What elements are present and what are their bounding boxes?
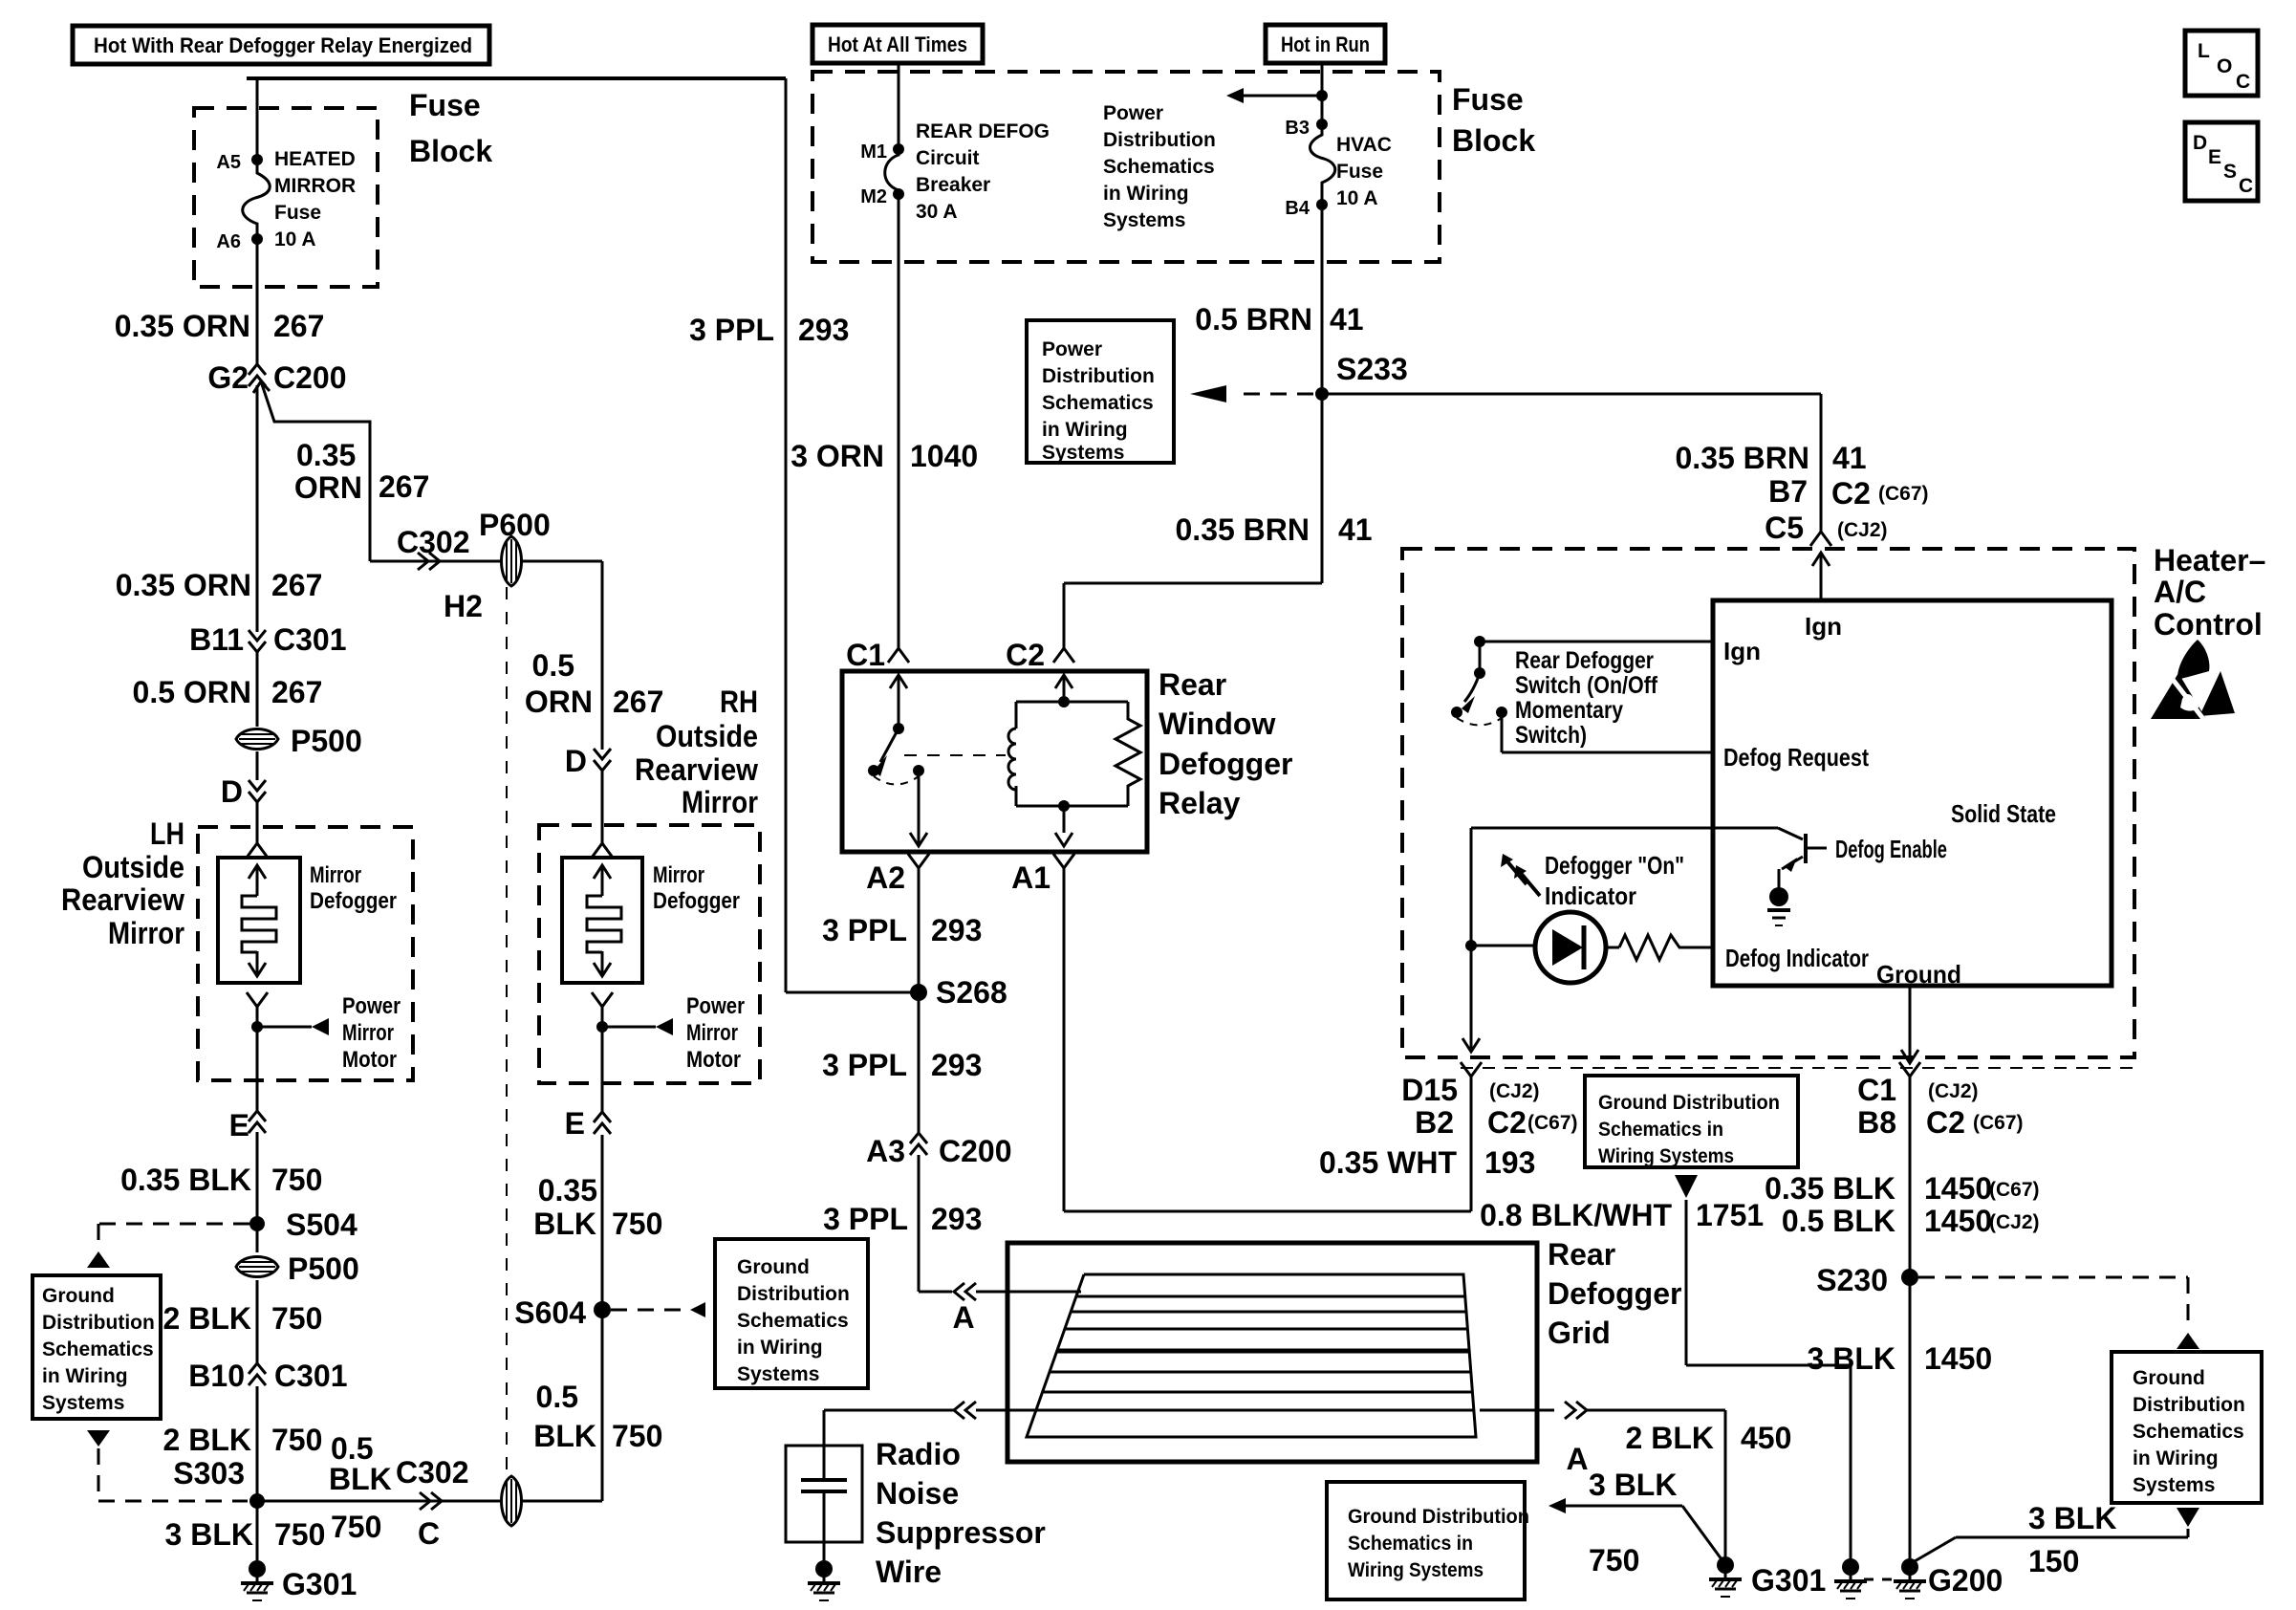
svg-text:0.5: 0.5 [331, 1431, 373, 1466]
svg-text:Rear Defogger: Rear Defogger [1515, 647, 1654, 674]
svg-text:P500: P500 [288, 1251, 359, 1286]
svg-text:C2: C2 [1006, 638, 1045, 672]
svg-text:C200: C200 [939, 1134, 1012, 1168]
grommet P600 (second, on ground path) [502, 1476, 522, 1526]
wire 2 BLK 750 from P500 to C301 [256, 1280, 259, 1363]
wire 0.5 BLK 750 from S303 through C302 to RH mirror chain [257, 1500, 501, 1503]
svg-text:A6: A6 [216, 231, 241, 252]
splice S268 [910, 984, 927, 1001]
svg-text:C2: C2 [1926, 1105, 1965, 1140]
svg-text:Schematics: Schematics [1103, 156, 1215, 178]
svg-text:Power: Power [1103, 102, 1163, 124]
svg-text:293: 293 [931, 913, 982, 947]
svg-text:3 PPL: 3 PPL [822, 913, 907, 947]
svg-text:P600: P600 [479, 508, 551, 542]
svg-text:0.8 BLK/WHT: 0.8 BLK/WHT [1480, 1198, 1672, 1232]
relay switch lever [880, 729, 899, 762]
svg-text:Distribution: Distribution [42, 1312, 155, 1334]
svg-text:Motor: Motor [686, 1047, 741, 1073]
svg-text:3 PPL: 3 PPL [822, 1048, 907, 1082]
grommet P600 (door pass-through) [502, 536, 522, 586]
svg-text:A3: A3 [866, 1134, 905, 1168]
splice S233 [1315, 387, 1329, 401]
svg-text:Hot With Rear Defogger Relay E: Hot With Rear Defogger Relay Energized [94, 33, 472, 57]
svg-text:B2: B2 [1415, 1105, 1454, 1140]
connector C200 pin A3 (chevrons) [910, 1133, 927, 1143]
connector C200 pin G2 (in-line chevrons) [249, 364, 266, 375]
svg-text:2 BLK: 2 BLK [163, 1423, 251, 1457]
svg-text:Block: Block [409, 134, 492, 168]
svg-text:B4: B4 [1285, 198, 1310, 219]
wire into RH mirror [601, 771, 604, 843]
svg-text:3 BLK: 3 BLK [1808, 1341, 1895, 1376]
svg-text:C301: C301 [274, 1359, 348, 1393]
svg-text:C302: C302 [397, 525, 470, 559]
relay coil/resistor top node from C2 [1063, 675, 1066, 704]
svg-text:C2: C2 [1831, 476, 1871, 511]
svg-text:Window: Window [1159, 707, 1275, 741]
wire: feed drop into HEATED MIRROR fuse A5 [256, 78, 259, 160]
svg-text:C302: C302 [396, 1455, 469, 1490]
svg-text:G200: G200 [1928, 1563, 2003, 1598]
svg-text:750: 750 [271, 1163, 322, 1197]
defog enable transistor Q (inside module) [1778, 828, 1803, 839]
wire 0.5 BLK 750 from S604 to C302 pass-through [601, 1310, 604, 1501]
svg-text:in Wiring: in Wiring [737, 1337, 823, 1359]
DESC reference box [2185, 122, 2258, 201]
svg-text:Rearview: Rearview [61, 882, 184, 917]
svg-text:750: 750 [331, 1510, 381, 1544]
wire 0.35 ORN 267 below C200 (to C301) [256, 385, 259, 632]
reference box: Ground Distribution Schematics in Wiring Systems (left) [32, 1275, 161, 1419]
grid ground connector (chevrons) to radio noise suppressor [954, 1402, 964, 1419]
svg-text:0.35 BLK: 0.35 BLK [1765, 1171, 1895, 1206]
svg-text:Schematics: Schematics [737, 1310, 849, 1332]
svg-text:A2: A2 [866, 860, 905, 895]
svg-text:(CJ2): (CJ2) [1837, 519, 1888, 541]
internal ground for defog enable [1769, 887, 1788, 906]
svg-text:0.35 ORN: 0.35 ORN [115, 309, 250, 343]
grommet P500 (second, body pass-through) [256, 1224, 259, 1252]
reference box: Power Distribution Schematics in Wiring Systems [1027, 320, 1174, 463]
svg-text:C200: C200 [273, 360, 347, 395]
svg-text:Indicator: Indicator [1545, 881, 1636, 910]
svg-text:Defogger: Defogger [653, 888, 740, 914]
connector pin D (RH mirror, chevrons) [594, 749, 611, 759]
svg-text:B7: B7 [1768, 474, 1808, 509]
svg-text:0.5 ORN: 0.5 ORN [133, 675, 251, 709]
svg-text:S303: S303 [173, 1456, 245, 1490]
svg-text:B8: B8 [1857, 1105, 1896, 1140]
fuse block 1 (dashed outline) [194, 108, 378, 287]
svg-text:0.35: 0.35 [296, 438, 356, 472]
LED light rays [1506, 860, 1527, 884]
svg-text:HEATED: HEATED [274, 148, 356, 170]
wire 3 BLK 750 reference from ground distribution to G301 [1549, 1498, 1566, 1513]
svg-text:0.35 BRN: 0.35 BRN [1676, 441, 1810, 475]
splice S230 [1901, 1269, 1918, 1286]
svg-text:Defogger: Defogger [1548, 1276, 1681, 1311]
svg-text:0.5: 0.5 [536, 1380, 578, 1414]
LED branch junction [1465, 940, 1477, 951]
svg-text:3 PPL: 3 PPL [689, 313, 774, 347]
Heater-A/C Control (dashed outline) [1402, 549, 2134, 1057]
svg-text:Schematics: Schematics [1042, 392, 1154, 414]
wire 0.8 BLK/WHT 1751 from ground distribution to G200 [1675, 1175, 1698, 1198]
svg-text:Block: Block [1452, 123, 1535, 158]
connector pin D (LH mirror, chevrons) [249, 780, 266, 791]
wire from Hot in Run to HVAC fuse B3 [1321, 63, 1324, 124]
svg-text:BLK: BLK [533, 1419, 596, 1453]
svg-text:D: D [2193, 132, 2207, 154]
svg-text:Schematics in: Schematics in [1348, 1533, 1473, 1555]
svg-text:Defog Indicator: Defog Indicator [1725, 944, 1869, 972]
grid connector pin A (chevrons) [954, 1283, 964, 1300]
fuse block 2 (dashed outline) [812, 72, 1440, 262]
relay connector forks C1 and C2 [888, 648, 909, 663]
dashed link between ground symbols [1864, 1578, 1896, 1581]
svg-text:D: D [221, 774, 243, 809]
power feed label box: Hot At All Times [812, 25, 983, 63]
svg-text:30 A: 30 A [916, 201, 958, 223]
wire 3 PPL 293 from S268 to C200 [918, 992, 921, 1134]
LH Outside Rearview Mirror (dashed outline) [198, 827, 413, 1080]
svg-text:Hot At All Times: Hot At All Times [828, 33, 967, 56]
connector fork CJ2 C1 / C67 C2 pin B8 [1899, 1062, 1920, 1077]
wire 0.5 BRN 41 from B4 to S233 [1321, 205, 1324, 394]
svg-text:Ground: Ground [2133, 1367, 2205, 1389]
splice S504 [249, 1216, 265, 1231]
connector CJ2 pin C5 / C67 pin C2 pin B7 fork at heater control [1810, 532, 1831, 546]
svg-text:Distribution: Distribution [1103, 129, 1216, 151]
svg-text:C5: C5 [1765, 511, 1804, 545]
svg-text:Schematics: Schematics [42, 1338, 154, 1360]
grommet P500 (LH door pass-through) [236, 729, 278, 750]
reference box: Ground Distribution Schematics in Wiring Systems (RH) [715, 1239, 868, 1388]
svg-text:BLK: BLK [329, 1462, 392, 1496]
connector fork CJ2 D15 / C67 C2 pin B2 [1461, 1062, 1482, 1077]
svg-text:in Wiring: in Wiring [1042, 419, 1128, 441]
svg-text:MIRROR: MIRROR [274, 175, 356, 197]
svg-text:Ground: Ground [1876, 960, 1961, 989]
svg-text:2 BLK: 2 BLK [1626, 1421, 1714, 1455]
svg-text:Fuse: Fuse [409, 88, 481, 122]
svg-text:RH: RH [720, 685, 758, 719]
svg-text:0.35 BLK: 0.35 BLK [120, 1163, 251, 1197]
svg-text:M1: M1 [860, 141, 887, 163]
svg-text:P500: P500 [291, 724, 362, 758]
svg-text:S504: S504 [286, 1207, 357, 1242]
ground for radio noise suppressor [815, 1560, 833, 1577]
svg-text:0.35: 0.35 [538, 1173, 597, 1207]
ground G301 (LH chain) [249, 1560, 266, 1577]
svg-text:HVAC: HVAC [1336, 134, 1392, 156]
svg-text:A/C: A/C [2154, 575, 2206, 609]
svg-text:Grid: Grid [1548, 1316, 1611, 1350]
reference box: Ground Distribution Schematics in Wiring Systems (top right) [1585, 1076, 1798, 1167]
svg-text:1450: 1450 [1924, 1341, 1992, 1376]
pin M1 of circuit breaker [893, 143, 904, 155]
dashed reference wire from S604 to ground distribution box [611, 1309, 688, 1312]
pin A5 of fuse block [251, 154, 263, 165]
relay coil [1015, 702, 1018, 729]
svg-text:Mirror: Mirror [686, 1020, 738, 1046]
svg-text:41: 41 [1330, 302, 1364, 337]
svg-text:Suppressor: Suppressor [876, 1515, 1046, 1550]
wire 3 BLK 750 from S303 to ground G301 [256, 1501, 259, 1560]
wire 0.35 BRN 41 from S233 to relay C2 [1321, 394, 1324, 583]
svg-text:Mirror: Mirror [653, 862, 704, 888]
pin M2 of circuit breaker [893, 188, 904, 200]
svg-text:S: S [2223, 161, 2237, 183]
svg-text:Breaker: Breaker [916, 174, 990, 196]
svg-text:Mirror: Mirror [342, 1020, 394, 1046]
wire from defog enable transistor to LED branch and D15 [1471, 827, 1778, 830]
svg-text:Radio: Radio [876, 1437, 961, 1471]
svg-text:0.35 ORN: 0.35 ORN [116, 568, 251, 602]
connector fork at LH mirror defogger input [247, 843, 268, 858]
junction to LH power mirror motor [251, 1021, 263, 1033]
svg-text:Noise: Noise [876, 1476, 959, 1511]
rear defogger switch, top contact to Ign pin [1474, 636, 1485, 647]
svg-text:S233: S233 [1336, 352, 1408, 386]
svg-text:H2: H2 [444, 589, 483, 623]
grid output connector pin A (chevrons, right) with 2 BLK 450 to G301 [1480, 1409, 1554, 1412]
svg-text:C: C [418, 1516, 440, 1551]
radio noise suppressor wire (capacitor in box) [786, 1446, 862, 1542]
power feed label box: Hot With Rear Defogger Relay Energized [73, 26, 489, 64]
svg-text:Power: Power [686, 993, 745, 1019]
svg-text:Defog Enable: Defog Enable [1835, 835, 1947, 863]
svg-text:C: C [2236, 71, 2250, 93]
svg-text:L: L [2198, 40, 2210, 62]
svg-text:3 BLK: 3 BLK [165, 1517, 253, 1552]
svg-text:Rear: Rear [1548, 1237, 1615, 1272]
svg-text:293: 293 [931, 1202, 982, 1236]
wire 3 BLK 150 from ground distribution box to G200 [2177, 1508, 2199, 1527]
svg-text:A1: A1 [1011, 860, 1051, 895]
wire 3 BLK 1450 from module ground to G200 [1909, 1077, 1912, 1558]
RH Outside Rearview Mirror (dashed outline) [539, 825, 760, 1083]
svg-text:C: C [2239, 175, 2253, 197]
svg-text:41: 41 [1832, 441, 1867, 475]
svg-text:B3: B3 [1285, 118, 1310, 139]
svg-text:Ign: Ign [1805, 612, 1842, 641]
power feed label box: Hot in Run [1266, 25, 1385, 63]
wire 0.35 WHT 193 from D15 to relay A1 [1470, 1077, 1473, 1211]
LH mirror defogger element (heater grid in box) [218, 858, 300, 983]
connector C301 pin B11 (in-line chevrons) [249, 630, 266, 641]
defogger grid element (trapezoid with grid lines) [1027, 1274, 1476, 1437]
grid output row to ground connectors [976, 1409, 1474, 1412]
svg-text:C301: C301 [273, 622, 347, 657]
svg-text:Momentary: Momentary [1515, 697, 1623, 724]
wire from Hot At All Times to breaker M1 [898, 63, 900, 149]
svg-text:G301: G301 [282, 1567, 357, 1601]
svg-text:Distribution: Distribution [737, 1283, 850, 1305]
svg-text:3 BLK: 3 BLK [1589, 1468, 1677, 1502]
circuit breaker CB: REAR DEFOG Circuit Breaker 30 A [885, 149, 899, 190]
svg-text:293: 293 [931, 1048, 982, 1082]
LOC reference box [2185, 31, 2258, 96]
dashed reference wire from ground distribution box to S303 [87, 1430, 110, 1447]
svg-text:Fuse: Fuse [1336, 161, 1383, 183]
svg-text:Control: Control [2154, 607, 2263, 642]
LED series resistor R [1619, 935, 1713, 960]
svg-text:Solid State: Solid State [1951, 799, 2056, 828]
svg-text:G301: G301 [1751, 1563, 1826, 1598]
svg-text:41: 41 [1338, 512, 1373, 547]
svg-text:M2: M2 [860, 186, 887, 207]
svg-text:Systems: Systems [1103, 209, 1185, 231]
wire 0.35 BLK 750 from E to S504 [256, 1132, 259, 1224]
wire LH mirror ground out of dashed box [256, 1027, 259, 1111]
svg-text:Power: Power [1042, 338, 1102, 360]
wire from grid to radio noise suppressor wire [824, 1409, 954, 1412]
svg-text:Distribution: Distribution [1042, 365, 1155, 387]
mechanical link (dashed) from switch to coil [904, 754, 1006, 756]
svg-text:Ground Distribution: Ground Distribution [1348, 1506, 1529, 1528]
svg-text:Rearview: Rearview [635, 752, 758, 787]
svg-text:Systems: Systems [2133, 1474, 2215, 1496]
pin B4 of HVAC fuse [1316, 199, 1328, 210]
svg-text:B10: B10 [188, 1359, 245, 1393]
svg-text:Hot in Run: Hot in Run [1281, 33, 1370, 56]
connector fork at RH mirror defogger input [592, 843, 613, 858]
svg-text:750: 750 [274, 1517, 325, 1552]
svg-text:Ground: Ground [42, 1285, 115, 1307]
svg-text:0.5 BLK: 0.5 BLK [1782, 1204, 1895, 1238]
wire RH mirror ground out of dashed box [601, 1027, 604, 1112]
svg-text:Systems: Systems [1042, 442, 1124, 464]
ground G301 (grid side) [1717, 1556, 1734, 1574]
splice S303 [249, 1493, 265, 1509]
svg-text:Relay: Relay [1159, 786, 1241, 820]
ground G200 [1901, 1558, 1918, 1576]
svg-text:Switch (On/Off: Switch (On/Off [1515, 672, 1658, 699]
svg-text:D: D [565, 744, 587, 778]
relay switch output contact [913, 765, 924, 776]
svg-text:1751: 1751 [1696, 1198, 1764, 1232]
svg-text:Defogger "On": Defogger "On" [1545, 851, 1684, 880]
svg-text:267: 267 [379, 469, 429, 504]
svg-text:Schematics in: Schematics in [1598, 1119, 1723, 1141]
ground G200 (0.8 BLK/WHT leg) [1842, 1558, 1859, 1576]
connector fork at RH mirror defogger output [592, 992, 613, 1007]
wire 0.35 BLK 750 from E to S604 [601, 1135, 604, 1310]
svg-text:ORN: ORN [525, 685, 593, 719]
dashed reference wire from S233 to power distribution box [1233, 393, 1313, 396]
svg-text:E: E [229, 1108, 249, 1142]
svg-text:Wire: Wire [876, 1555, 942, 1589]
svg-text:Mirror: Mirror [108, 916, 184, 950]
svg-text:150: 150 [2028, 1544, 2079, 1578]
svg-text:G2: G2 [207, 360, 249, 395]
svg-text:Mirror: Mirror [682, 785, 758, 819]
svg-text:Outside: Outside [656, 719, 758, 753]
svg-text:1450: 1450 [1924, 1171, 1992, 1206]
svg-text:(CJ2): (CJ2) [1928, 1080, 1979, 1102]
wire 3 PPL 293 feed from hot rail to S268 [785, 78, 788, 992]
svg-text:Motor: Motor [342, 1047, 397, 1073]
svg-text:C2: C2 [1487, 1105, 1527, 1140]
svg-text:Wiring Systems: Wiring Systems [1598, 1145, 1734, 1167]
svg-text:Defogger: Defogger [310, 888, 397, 914]
svg-text:293: 293 [798, 313, 849, 347]
wire 2 BLK 750 from C301 to S303 [256, 1386, 259, 1501]
svg-text:Ground: Ground [737, 1256, 810, 1278]
harness boundary dashed line between P600 grommets [506, 587, 508, 1475]
svg-text:Systems: Systems [737, 1363, 819, 1385]
wire 0.5 ORN 267 from C301 to P500 grommet [256, 652, 259, 727]
svg-text:10 A: 10 A [1336, 187, 1378, 209]
fuse F: HEATED MIRROR Fuse 10 A [243, 160, 271, 239]
defog enable output arrow through module boundary [1462, 1038, 1480, 1052]
wire 0.35 ORN 267 from fuse A6 to connector C200 [256, 239, 259, 364]
defogger on indicator LED D1 [1471, 945, 1534, 947]
connector C301 pin B10 (chevrons) [249, 1363, 266, 1374]
svg-text:3 PPL: 3 PPL [823, 1202, 908, 1236]
svg-text:750: 750 [612, 1207, 662, 1241]
svg-text:(CJ2): (CJ2) [1989, 1211, 2040, 1233]
svg-text:267: 267 [271, 675, 322, 709]
svg-text:450: 450 [1741, 1421, 1791, 1455]
rear defogger switch pivot and lever [1479, 642, 1482, 673]
connector C302 pin C (chevrons) [431, 1492, 442, 1510]
svg-text:Rear: Rear [1159, 667, 1226, 702]
svg-text:267: 267 [271, 568, 322, 602]
svg-text:(C67): (C67) [1527, 1112, 1578, 1134]
svg-text:ORN: ORN [294, 470, 362, 505]
svg-text:Defogger: Defogger [1159, 747, 1292, 781]
svg-text:750: 750 [612, 1419, 662, 1453]
svg-text:in Wiring: in Wiring [2133, 1447, 2219, 1469]
wire 3 PPL 293 from C200 to defogger grid terminal A [918, 1155, 921, 1292]
svg-text:S604: S604 [514, 1295, 586, 1330]
wire: hot feed rail from fuse block to 3 PPL drop [247, 76, 786, 80]
wire 0.5 ORN to RH mirror [522, 560, 602, 563]
reference box: Ground Distribution Schematics in Wiring Systems (bottom right) [2112, 1352, 2262, 1503]
svg-text:A5: A5 [216, 152, 241, 173]
svg-text:BLK: BLK [533, 1207, 596, 1241]
connector C302 pin H2 (chevrons) on 0.35 ORN branch [370, 560, 501, 563]
svg-text:0.5 BRN: 0.5 BRN [1195, 302, 1312, 337]
wire 3 ORN 1040 from breaker M2 to relay C1 [898, 194, 900, 648]
svg-text:2 BLK: 2 BLK [163, 1301, 251, 1336]
rear defogger switch contacts [1451, 707, 1462, 718]
solid state control module (box) [1713, 600, 2112, 986]
Ign feed arrow into solid state control [1820, 553, 1823, 600]
svg-text:in Wiring: in Wiring [1103, 183, 1189, 205]
svg-text:in Wiring: in Wiring [42, 1365, 128, 1387]
svg-text:LH: LH [150, 816, 184, 851]
svg-text:A: A [952, 1300, 974, 1335]
svg-text:(CJ2): (CJ2) [1489, 1080, 1540, 1102]
svg-text:Ign: Ign [1723, 637, 1761, 665]
svg-text:C1: C1 [1857, 1073, 1896, 1107]
splice S604 [594, 1301, 611, 1318]
dashed reference wire from S504 to ground distribution box [98, 1223, 249, 1226]
fuse F: HVAC Fuse 10 A [1310, 124, 1334, 205]
wire from relay A1 down to junction with 0.35 WHT [1063, 868, 1066, 1211]
svg-text:D15: D15 [1401, 1073, 1458, 1107]
svg-text:B11: B11 [189, 622, 244, 657]
relay connector forks A2 and A1 [908, 854, 929, 868]
svg-text:750: 750 [271, 1301, 322, 1336]
pin B3 of HVAC fuse [1316, 119, 1328, 130]
svg-text:E: E [2208, 146, 2221, 168]
svg-text:Ground Distribution: Ground Distribution [1598, 1092, 1780, 1114]
